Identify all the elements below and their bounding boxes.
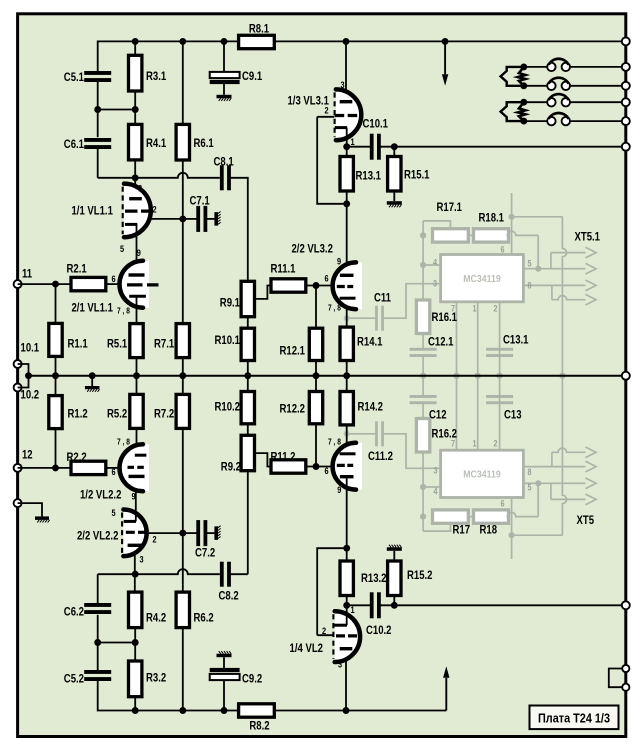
junction VL1.1 anode node — [132, 174, 139, 181]
junction rail R10 — [244, 372, 251, 379]
wire VL1.1b cathode to R5.1 — [136, 295, 138, 324]
junction rail input — [25, 372, 32, 379]
junction rail R14 — [343, 372, 350, 379]
triode 1/2 VL2.2 — [120, 444, 150, 491]
junction R17 left bot — [420, 514, 426, 520]
connector pin arrow2 top — [586, 263, 597, 274]
wire R2.1 to grid pin6 — [106, 283, 119, 285]
wire R1.1 top lead — [55, 284, 57, 323]
svg-text:R4.2: R4.2 — [146, 611, 166, 625]
svg-text:XT5.1: XT5.1 — [575, 230, 601, 244]
junction rail R7 — [179, 372, 186, 379]
svg-text:7 , 8: 7 , 8 — [117, 306, 130, 316]
heater bracket 2 — [501, 102, 524, 121]
wire VL3.1 anode lead — [345, 41, 347, 99]
wire R14.2 to rail — [346, 376, 348, 392]
resistor R3.1 — [129, 55, 142, 91]
wire R17 wiper bot — [423, 523, 450, 531]
svg-text:9: 9 — [137, 248, 141, 259]
svg-text:C8.1: C8.1 — [214, 155, 234, 169]
svg-text:6: 6 — [112, 274, 116, 285]
junction VL3.1 rail — [343, 38, 350, 45]
junction C7.2 node — [179, 530, 186, 537]
wire R6.1 to R7.1 — [182, 160, 184, 324]
svg-text:R6.1: R6.1 — [194, 136, 214, 150]
wire R10.2-R9.2 — [247, 424, 249, 436]
svg-text:7: 7 — [451, 304, 455, 314]
wire R3.2-R4.2 link — [98, 642, 136, 644]
svg-text:R3.2: R3.2 — [146, 671, 166, 685]
svg-text:R10.2: R10.2 — [215, 400, 241, 414]
wire heater row 3 right — [570, 101, 626, 103]
capacitor C13.1 — [486, 348, 513, 357]
wire XT column bot — [562, 376, 566, 536]
resistor R18.1 — [474, 229, 509, 242]
wire R1.2 to rail — [55, 376, 57, 396]
wire input 11 — [18, 283, 71, 285]
svg-text:R13.1: R13.1 — [356, 169, 382, 183]
junction rail pin2 bot — [497, 373, 503, 379]
wire C9.2 bottom lead — [223, 680, 225, 710]
wire R13.1 to VL3.2 anode — [346, 191, 348, 275]
wire C12 to rail top — [422, 356, 424, 376]
wire C5.1-C6.1 — [97, 82, 99, 137]
wire R2.2 to grid pin6 — [106, 467, 119, 469]
wire R10.2 to rail — [247, 376, 249, 392]
junction rail ground — [89, 372, 96, 379]
terminal 10.1 — [14, 360, 22, 368]
wire to C7.1 — [183, 218, 198, 220]
wire R12.2 bottom lead — [315, 424, 317, 467]
wire R9.2 to C8.2 — [247, 471, 249, 575]
resistor R11.2 — [271, 460, 306, 473]
junction C5.1-C6.1 — [94, 106, 101, 113]
capacitor C6.1 — [84, 138, 111, 149]
wire R13.2 to VL2b anode — [346, 548, 348, 561]
wire R10.1 to rail — [247, 361, 249, 376]
wire R15.2 top lead — [393, 551, 395, 561]
wire R5.2 to VL2.2 cathode — [136, 428, 138, 457]
svg-text:C13: C13 — [504, 408, 522, 422]
svg-text:R8.2: R8.2 — [249, 719, 269, 733]
wire terminal 10 stubs — [18, 364, 29, 388]
wire R17-R18 bot — [468, 516, 473, 518]
junction R11.2-R12.2 — [313, 463, 320, 470]
svg-text:5: 5 — [528, 483, 532, 493]
svg-text:C8.2: C8.2 — [219, 589, 239, 603]
wire R15.1 top lead — [393, 147, 395, 157]
wire R11.1 to VL3.2 grid — [306, 285, 332, 287]
resistor R14.2 — [340, 392, 353, 425]
wire XT column top — [562, 217, 566, 376]
wire R14.2 to VL2 cathode — [346, 425, 348, 453]
connector pin arrow1 top — [586, 247, 597, 258]
power arrow up — [443, 666, 449, 710]
resistor R14.1 — [340, 327, 353, 360]
ground symbol left — [35, 516, 50, 522]
svg-text:5: 5 — [112, 508, 117, 519]
capacitor C11 — [375, 306, 384, 331]
wire R4.1 to VL1.1 anode — [134, 160, 136, 199]
resistor R13.1 — [340, 157, 353, 192]
junction R3.2 rail — [132, 707, 139, 714]
junction C5.2-C6.2 — [94, 639, 101, 646]
svg-text:2/2 VL2.2: 2/2 VL2.2 — [77, 529, 119, 543]
junction VL2 pin1 — [343, 602, 350, 609]
terminal top rail — [622, 37, 630, 45]
resistor R10.2 — [241, 392, 254, 424]
wire R18 to pin5 bot — [537, 483, 539, 516]
svg-text:R5.2: R5.2 — [107, 407, 127, 421]
svg-text:1/3 VL3.1: 1/3 VL3.1 — [288, 94, 330, 108]
junction R17 left top — [420, 232, 426, 238]
wire R17-R18 top — [468, 234, 473, 236]
wire R1.1 to rail — [55, 356, 57, 375]
terminal output bottom — [622, 601, 630, 609]
junction heater 2 a — [520, 99, 527, 106]
wire VL3.1 grid pin2 — [317, 116, 334, 118]
svg-text:R15.1: R15.1 — [404, 168, 430, 182]
junction pin5 bot — [535, 480, 541, 486]
junction rail pin1 top — [475, 373, 481, 379]
resistor R4.2 — [129, 592, 142, 628]
wire VL1.1 grid pin2 — [150, 218, 183, 220]
jumper socket 2b — [562, 82, 570, 90]
junction arrow top rail — [442, 38, 449, 45]
svg-text:R3.1: R3.1 — [146, 69, 166, 83]
junction R3.1-R4.1 — [132, 106, 139, 113]
svg-text:6: 6 — [501, 499, 505, 509]
wire R14.1 to rail — [346, 361, 348, 376]
wire R9.2 tap to R11.2 — [255, 453, 273, 466]
svg-text:C10.2: C10.2 — [366, 623, 392, 637]
wire aux bracket — [609, 669, 622, 688]
wire VL2 grid pin2 — [317, 634, 334, 636]
svg-text:R17.1: R17.1 — [437, 200, 463, 214]
wire VL3.1 grid to SRPP node — [317, 117, 347, 204]
wire C6.2 up — [97, 574, 99, 603]
svg-text:R1.1: R1.1 — [68, 337, 88, 351]
svg-text:C11: C11 — [374, 291, 391, 305]
svg-text:R9.2: R9.2 — [221, 460, 241, 474]
junction SRPP top — [343, 200, 350, 207]
wire IC pin2 to rail bot — [499, 376, 501, 451]
resistor R12.1 — [309, 328, 322, 360]
wire heater row 2 right — [570, 85, 626, 87]
chassis ground C9.1 — [217, 95, 232, 101]
capacitor C10.2 — [370, 592, 381, 618]
terminal 10.2 — [14, 384, 22, 392]
wire C7.1 to chassis — [206, 218, 215, 220]
junction VL3.1 pin1 — [343, 143, 350, 150]
junction pin6 net top — [509, 214, 515, 220]
wire ground terminal — [18, 503, 42, 516]
svg-text:R14.1: R14.1 — [357, 335, 383, 349]
svg-text:9: 9 — [337, 257, 341, 268]
wire heater row 2 left — [524, 85, 547, 87]
svg-text:5: 5 — [528, 259, 532, 269]
wire heater row 4 left — [524, 120, 547, 122]
resistor R10.1 — [241, 328, 254, 360]
junction rail R12 — [313, 372, 320, 379]
svg-text:10.1: 10.1 — [21, 341, 40, 355]
junction rail pin7 bot — [453, 373, 459, 379]
wire input 12 — [18, 467, 71, 469]
wire R4.2 to VL2.2 anode — [134, 545, 136, 592]
wire IC pin6 column top — [511, 193, 513, 255]
wire VL2.2 grid pin2 — [146, 532, 182, 534]
resistor R6.2 — [176, 592, 189, 628]
wire bottom rail left — [98, 681, 239, 711]
terminal heater 2 — [622, 82, 630, 90]
resistor R13.2 — [340, 561, 353, 596]
wire R5.2 to rail — [136, 376, 138, 395]
terminal aux a — [622, 665, 629, 672]
resistor R18 — [474, 510, 509, 523]
wire VL2 grid to SRPP node — [317, 548, 347, 635]
svg-text:C10.1: C10.1 — [363, 117, 389, 131]
wire IC pin1 to rail top — [477, 302, 479, 376]
jumper link 2 — [549, 78, 569, 84]
junction rail C12 top — [420, 373, 426, 379]
terminal output top — [622, 143, 630, 151]
wire pin6 to XT top — [512, 216, 563, 218]
junction VL2 rail — [343, 707, 350, 714]
svg-text:6: 6 — [501, 245, 505, 255]
wire C12 to rail bot — [422, 376, 424, 396]
wire pin5 to arrow top — [538, 268, 585, 270]
svg-text:7: 7 — [451, 439, 455, 449]
svg-text:R12.2: R12.2 — [280, 402, 306, 416]
junction heater 1 b — [520, 82, 527, 89]
wire IC pin3 bot — [383, 434, 441, 469]
junction rail pin2 top — [497, 373, 503, 379]
svg-text:6: 6 — [325, 466, 329, 477]
svg-text:R9.1: R9.1 — [220, 296, 240, 310]
junction heater 2 b — [520, 118, 527, 125]
wire pin1 to C10.1 — [347, 146, 372, 148]
wire R15.2 bottom lead — [393, 596, 395, 606]
wire C9.2 top lead — [223, 657, 225, 668]
svg-text:7 , 8: 7 , 8 — [328, 303, 341, 313]
wire heater row 4 right — [570, 120, 626, 122]
resistor R7.1 — [176, 324, 189, 358]
svg-text:3: 3 — [140, 555, 144, 566]
wire R3.2 bottom lead — [134, 697, 136, 711]
wire arrow1 top — [551, 252, 586, 254]
terminal ground — [14, 499, 22, 507]
wire C10.2 to output terminal — [379, 604, 626, 606]
svg-text:R14.2: R14.2 — [358, 400, 384, 414]
wire top rail left — [98, 41, 239, 71]
terminal heater 4 — [622, 117, 630, 125]
svg-text:2/2 VL3.2: 2/2 VL3.2 — [292, 242, 334, 256]
triode 1/3 VL3.1 — [335, 89, 362, 140]
junction input 12 - R1.2 — [52, 464, 59, 471]
node C11-cathode top — [344, 315, 350, 321]
jumper socket 1a — [547, 63, 555, 71]
jumper socket 3a — [547, 98, 555, 106]
wire R17 column top — [422, 221, 424, 300]
triode 2/2 VL3.2 — [333, 262, 362, 309]
wire R11.2 to VL2 grid — [306, 466, 332, 468]
junction input 11 - R1.1 — [52, 281, 59, 288]
wire IC pin7 to rail top — [456, 302, 458, 376]
wire C8.1 to R9.1 — [229, 178, 247, 281]
svg-text:C9.1: C9.1 — [242, 69, 262, 83]
capacitor C12.1 — [410, 348, 437, 357]
svg-text:C12.1: C12.1 — [428, 335, 454, 349]
capacitor C7.2 — [196, 520, 207, 546]
svg-text:7 , 8: 7 , 8 — [328, 437, 341, 447]
svg-text:1: 1 — [473, 439, 477, 449]
jumper socket 4b — [562, 117, 570, 125]
wire VL3.1 cathode to R13.1 — [346, 128, 348, 157]
svg-text:2: 2 — [494, 304, 498, 314]
svg-text:4: 4 — [433, 258, 438, 268]
svg-text:R6.2: R6.2 — [194, 611, 214, 625]
svg-text:R5.1: R5.1 — [107, 337, 127, 351]
wire IC pin6 column bot — [511, 498, 513, 560]
wire pin5 to arrow bot — [538, 482, 585, 484]
chassis ground R15.2 — [387, 545, 402, 551]
wire C6.1 down — [97, 149, 99, 178]
svg-text:1/1 VL1.1: 1/1 VL1.1 — [72, 204, 114, 218]
svg-text:2: 2 — [325, 106, 329, 117]
svg-text:12: 12 — [22, 448, 33, 462]
svg-text:R18: R18 — [480, 523, 498, 537]
junction R15.2 bottom — [391, 602, 398, 609]
wire VL2 anode lead — [345, 652, 347, 710]
wire VL2.2 cathode to VL2.2a anode — [135, 476, 137, 521]
junction SRPP bottom — [343, 545, 350, 552]
wire arrow4 top — [552, 296, 586, 300]
wire bracket1 bot — [550, 483, 552, 499]
wire VL1.1 cathode to VL1.1b anode — [136, 224, 138, 275]
chassis ground C7.1 — [214, 212, 220, 226]
wire VL2 cathode to R13.2 — [346, 596, 348, 626]
capacitor C10.1 — [370, 134, 381, 160]
wire C11 left top — [347, 317, 376, 319]
svg-text:1/2 VL2.2: 1/2 VL2.2 — [80, 488, 122, 502]
svg-text:8: 8 — [528, 467, 532, 477]
wire arrow4 bot — [552, 448, 586, 452]
terminal 12 — [14, 464, 22, 472]
chassis ground R15.1 — [387, 201, 402, 207]
svg-text:5: 5 — [120, 244, 125, 255]
junction IC pin4 top — [420, 262, 426, 268]
junction VL2.2 anode node — [132, 571, 139, 578]
resistor R11.1 — [271, 279, 306, 292]
svg-text:XT5: XT5 — [577, 513, 595, 527]
wire rail ground stub — [91, 376, 93, 386]
wire IC pin8 to arrow top — [523, 284, 585, 286]
svg-text:3: 3 — [338, 660, 342, 671]
connector pin arrow3 top — [586, 280, 597, 291]
junction rail pin7 top — [453, 373, 459, 379]
svg-text:R13.2: R13.2 — [361, 571, 387, 585]
junction rail R1 — [52, 372, 59, 379]
resistor R15.2 — [388, 561, 401, 596]
op-amp U MC34119 top — [441, 255, 524, 302]
wire VL2b anode down — [346, 477, 348, 548]
junction R3.1 rail — [132, 38, 139, 45]
wire heater row 3 left — [524, 101, 547, 103]
svg-text:C6.1: C6.1 — [64, 137, 84, 151]
junction R15.1 top — [391, 143, 398, 150]
wire bottom rail right — [274, 710, 446, 712]
junction pin5 top — [535, 266, 541, 272]
wire R12.2 to rail — [315, 376, 317, 392]
wire arrow1 bot — [551, 498, 586, 500]
svg-text:2: 2 — [322, 626, 326, 637]
wire heater row 1 left — [524, 66, 547, 68]
capacitor C7.1 — [196, 206, 207, 232]
wire pin6 to XT bot — [512, 534, 563, 536]
wire IC pin5 bot — [523, 482, 538, 484]
wire IC pin3 top — [383, 284, 441, 319]
wire R3.1-R4.1 link — [98, 109, 136, 111]
resistor R3.2 — [129, 661, 142, 697]
wire R18 out hop bot — [507, 512, 538, 516]
junction R3.2-R4.2 — [132, 639, 139, 646]
resistor R1.2 — [49, 396, 62, 429]
resistor R4.1 — [129, 124, 142, 159]
chassis ground C7.2 — [214, 526, 220, 540]
resistor R16.1 — [416, 300, 429, 334]
svg-text:C7.2: C7.2 — [195, 546, 215, 560]
wire top rail right — [274, 40, 626, 42]
svg-text:R12.1: R12.1 — [280, 344, 306, 358]
svg-text:R15.2: R15.2 — [407, 568, 433, 582]
capacitor C9.2 — [210, 668, 240, 680]
resistor R17.1 — [433, 229, 469, 242]
junction C9.1 rail — [221, 38, 228, 45]
resistor R6.1 — [176, 124, 189, 160]
wire R6.2 bottom lead — [182, 628, 184, 711]
terminal aux b — [622, 684, 629, 691]
heater filament 1 — [518, 67, 526, 86]
svg-text:C5.2: C5.2 — [64, 672, 84, 686]
heater filament 2 — [518, 102, 526, 121]
wire IC pin4 bot — [423, 486, 441, 488]
wire bracket2 top — [551, 285, 553, 299]
heater bracket 1 — [501, 67, 524, 86]
junction R11.1-R12.1 — [313, 282, 320, 289]
resistor R7.2 — [176, 394, 189, 428]
svg-text:10.2: 10.2 — [21, 388, 40, 402]
svg-text:6: 6 — [112, 467, 116, 478]
svg-text:R7.2: R7.2 — [154, 407, 174, 421]
wire R7.2 to rail — [182, 376, 184, 395]
svg-text:2/1 VL1.1: 2/1 VL1.1 — [72, 301, 114, 315]
svg-text:3: 3 — [138, 184, 142, 195]
wire R15.1 bottom lead — [393, 191, 395, 201]
wire R9.1-R10.1 — [247, 317, 249, 329]
svg-text:7 , 8: 7 , 8 — [117, 437, 130, 447]
wire C11 left bot — [347, 433, 376, 435]
svg-text:C6.2: C6.2 — [64, 605, 84, 619]
wire IC pin2 to rail top — [499, 302, 501, 376]
wire C8.2 to R9.2 — [229, 573, 247, 575]
wire pin1 to C10.2 — [347, 604, 372, 606]
wire IC pin1 to rail bot — [477, 376, 479, 451]
wire R6.1 top lead — [182, 41, 184, 124]
svg-text:3: 3 — [433, 279, 437, 289]
wire R12.1 top lead — [315, 286, 317, 329]
wire R16 lead bot — [422, 403, 424, 419]
wire R7.2 to R6.2 — [182, 428, 184, 592]
